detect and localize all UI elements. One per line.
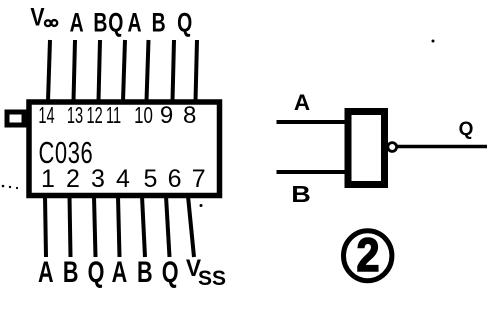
svg-text:11: 11 [106,103,121,129]
pin 4 wire [118,196,120,257]
IC U1 body (C036 DIP-14 package) [29,102,220,196]
pin 3 wire [94,196,96,257]
svg-text:4: 4 [116,165,130,193]
svg-text:Q: Q [108,7,123,37]
pin 2 wire [70,196,71,257]
pin 12 wire [99,40,101,101]
figure number circle [344,231,392,281]
svg-text:9: 9 [160,102,173,129]
VDD subscript circle 2 [51,20,57,26]
svg-text:Q: Q [459,119,474,140]
pin 5 wire [142,196,145,257]
svg-text:5: 5 [144,165,158,193]
svg-text:A: A [38,254,54,288]
svg-text:Q: Q [177,7,192,37]
pin 1 wire [45,196,46,257]
svg-text:7: 7 [192,165,206,193]
svg-text:A: A [127,7,141,37]
svg-text:6: 6 [168,165,182,193]
svg-text:B: B [63,254,79,288]
svg-text:3: 3 [91,165,105,193]
VDD subscript circle 1 [45,20,51,26]
svg-text:10: 10 [134,102,153,128]
pin 9 wire [173,40,175,101]
svg-text:A: A [70,7,84,37]
svg-text:Q: Q [162,254,179,288]
svg-text:A: A [294,90,310,115]
svg-text:13: 13 [67,103,83,129]
scan speck dot near pin 7 [200,204,203,207]
pin-1 index tab on left side of package [7,112,24,125]
svg-text:A: A [112,254,128,288]
pin 8 wire [196,40,198,101]
svg-text:B: B [93,7,107,37]
gate U2 input wire A [277,120,350,124]
svg-text:2: 2 [356,230,379,282]
svg-text:B: B [137,254,153,288]
pin 6 wire [166,196,170,257]
gate U2 input wire B [277,170,350,174]
pin 13 wire [74,40,76,101]
scan speck dot top right [432,40,435,43]
gate U2 inversion bubble [388,143,397,152]
pin 10 wire [147,40,149,101]
svg-text:SS: SS [198,267,226,290]
pin 11 wire [123,40,125,101]
svg-text:12: 12 [86,103,102,129]
svg-text:2: 2 [66,165,80,193]
svg-text:B: B [152,7,166,37]
svg-text:1: 1 [41,165,55,193]
pin 14 wire [48,40,50,101]
scan speck dots bottom left [2,185,5,188]
pin 7 wire [188,196,194,257]
svg-text:14: 14 [38,103,54,129]
gate U2 body (NAND, rectangular IEC style) [348,112,385,185]
svg-text:8: 8 [183,102,196,129]
gate U2 output wire Q [397,145,487,149]
svg-text:V: V [30,3,45,31]
svg-text:B: B [291,182,311,208]
svg-text:Q: Q [88,254,105,288]
